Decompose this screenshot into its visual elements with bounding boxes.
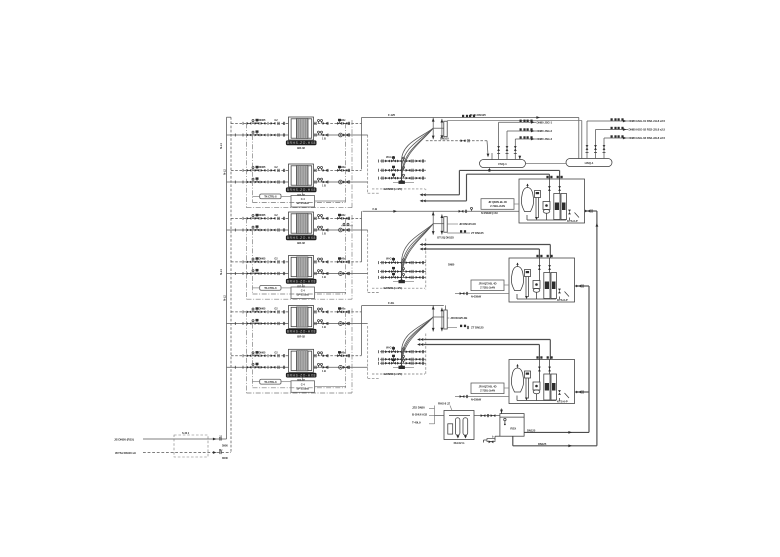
svg-text:W-G-Z: W-G-Z xyxy=(386,257,394,261)
svg-text:DN80 HSG-01 RS2-J1L8 x2.5: DN80 HSG-01 RS2-J1L8 x2.5 xyxy=(629,119,666,123)
svg-text:1 B: 1 B xyxy=(322,232,326,236)
svg-text:RHS-8 JZ: RHS-8 JZ xyxy=(438,402,450,406)
svg-text:F-B: F-B xyxy=(373,207,378,211)
svg-text:DN40z: DN40z xyxy=(338,257,346,261)
svg-text:T-40L9: T-40L9 xyxy=(412,421,421,425)
svg-text:Z-7JBL-2x4N: Z-7JBL-2x4N xyxy=(480,286,495,290)
svg-text:F-125: F-125 xyxy=(388,113,396,117)
svg-text:RH-02 G: RH-02 G xyxy=(454,441,466,445)
svg-text:BP-2518x8: BP-2518x8 xyxy=(297,387,310,391)
svg-text:DN100: DN100 xyxy=(440,136,449,140)
svg-text:C-4: C-4 xyxy=(301,289,306,293)
svg-text:C-4: C-4 xyxy=(301,197,306,201)
svg-text:N-L1: N-L1 xyxy=(219,269,223,275)
svg-text:JR HQ72-BL 4D: JR HQ72-BL 4D xyxy=(479,281,497,285)
svg-text:DN65: DN65 xyxy=(259,351,266,355)
svg-text:JR HQ72-BL 4D: JR HQ72-BL 4D xyxy=(479,384,497,388)
svg-text:JZS DN50: JZS DN50 xyxy=(412,406,425,410)
svg-text:Z-7JBL-2x4N: Z-7JBL-2x4N xyxy=(480,389,495,393)
svg-text:1 B: 1 B xyxy=(322,184,326,188)
svg-text:FSQ-1: FSQ-1 xyxy=(498,162,507,166)
svg-text:4xDN80 (L=25): 4xDN80 (L=25) xyxy=(383,286,402,290)
svg-text:N-L1: N-L1 xyxy=(219,143,223,149)
svg-text:TK-CTRL-8: TK-CTRL-8 xyxy=(264,381,277,384)
svg-text:DN40z: DN40z xyxy=(338,307,346,311)
svg-text:1 B: 1 B xyxy=(322,137,326,141)
svg-text:W-G-Z: W-G-Z xyxy=(386,155,394,159)
svg-text:DN40z: DN40z xyxy=(338,165,346,169)
svg-text:S-40 J: S-40 J xyxy=(182,431,190,435)
svg-text:R=21 DN125: R=21 DN125 xyxy=(470,113,486,117)
svg-text:DN65: DN65 xyxy=(259,165,266,169)
svg-text:DN40: DN40 xyxy=(222,457,228,460)
svg-text:1 B: 1 B xyxy=(322,325,326,329)
svg-text:N=258kW Q=8.8: N=258kW Q=8.8 xyxy=(481,212,498,215)
svg-text:4xDN80 (L=25): 4xDN80 (L=25) xyxy=(383,187,402,191)
svg-text:TK-CTRL-8: TK-CTRL-8 xyxy=(264,287,277,290)
svg-text:HSQ-1: HSQ-1 xyxy=(585,161,594,165)
svg-text:Z-7JBL-2x4N: Z-7JBL-2x4N xyxy=(490,204,505,208)
svg-text:N-L2: N-L2 xyxy=(223,295,227,301)
svg-text:DN80 HSG-03 RS2-J3L8 x2.5: DN80 HSG-03 RS2-J3L8 x2.5 xyxy=(629,136,666,140)
svg-text:DN65: DN65 xyxy=(259,118,266,122)
svg-text:F-3G: F-3G xyxy=(388,301,395,305)
svg-text:DN65: DN65 xyxy=(259,307,266,311)
svg-text:TK-CTRL-8: TK-CTRL-8 xyxy=(264,196,277,199)
svg-text:BP-2518x8: BP-2518x8 xyxy=(297,293,310,297)
svg-text:DN65: DN65 xyxy=(259,213,266,217)
svg-text:BP-2518x8: BP-2518x8 xyxy=(297,201,310,205)
svg-text:JR DN125-0B: JR DN125-0B xyxy=(450,316,467,320)
svg-text:N=258kW: N=258kW xyxy=(471,295,482,298)
svg-text:1 B: 1 B xyxy=(322,369,326,373)
svg-text:W-G-Z: W-G-Z xyxy=(386,346,394,350)
svg-text:DN80 JSG-2: DN80 JSG-2 xyxy=(537,129,553,133)
svg-text:1 B: 1 B xyxy=(322,275,326,279)
svg-text:B-SHUI A32: B-SHUI A32 xyxy=(412,413,427,417)
svg-text:DN125: DN125 xyxy=(527,428,536,432)
svg-text:DN80 HSG-02 RS2-J2L8 x2.5: DN80 HSG-02 RS2-J2L8 x2.5 xyxy=(629,128,666,132)
svg-text:N-L2: N-L2 xyxy=(223,169,227,175)
svg-text:JR DN125-08: JR DN125-08 xyxy=(459,222,476,226)
svg-text:DN40z: DN40z xyxy=(338,350,346,354)
svg-text:N=258kW: N=258kW xyxy=(471,398,482,401)
svg-text:ZT DN125: ZT DN125 xyxy=(471,231,484,235)
svg-text:DN80 JSG-3: DN80 JSG-3 xyxy=(537,137,553,141)
svg-text:DN80 JSG-1: DN80 JSG-1 xyxy=(537,120,553,124)
svg-text:ZT DN125: ZT DN125 xyxy=(471,326,484,330)
svg-text:JR QKRS-BL 4D: JR QKRS-BL 4D xyxy=(488,200,507,204)
svg-text:DN125: DN125 xyxy=(538,442,547,446)
svg-text:OT-2Q DN125: OT-2Q DN125 xyxy=(437,235,454,239)
svg-text:WYSJ DN40 x9: WYSJ DN40 x9 xyxy=(115,451,136,455)
svg-text:DN40z: DN40z xyxy=(338,118,346,122)
svg-text:DN40z: DN40z xyxy=(338,213,346,217)
svg-text:4xDN80 (L=25): 4xDN80 (L=25) xyxy=(383,372,402,376)
svg-text:C-4: C-4 xyxy=(301,382,306,386)
svg-text:DN80: DN80 xyxy=(448,262,455,266)
svg-text:JS DN50 (R15): JS DN50 (R15) xyxy=(114,438,134,442)
svg-text:DN65: DN65 xyxy=(259,257,266,261)
svg-text:DN50: DN50 xyxy=(222,444,228,447)
